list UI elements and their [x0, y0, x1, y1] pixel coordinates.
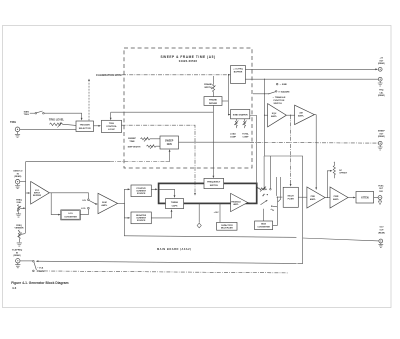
svg-text:LIN: LIN	[82, 200, 86, 202]
svg-text:FREQUENCY: FREQUENCY	[207, 182, 221, 184]
svg-text:COMP: COMP	[243, 137, 250, 139]
svg-text:TRIG: TRIG	[24, 114, 30, 116]
svg-text:WIDTH: WIDTH	[204, 87, 212, 89]
svg-text:FRAME: FRAME	[209, 99, 217, 102]
svg-text:NEGATIVE: NEGATIVE	[136, 214, 147, 217]
svg-text:SWEEP & FRAME TIME (A5): SWEEP & FRAME TIME (A5)	[160, 55, 215, 59]
svg-text:SWP WIDTH: SWP WIDTH	[128, 147, 141, 149]
svg-text:TIMING: TIMING	[171, 202, 179, 204]
svg-text:FUNC: FUNC	[378, 185, 384, 187]
svg-text:(REAR): (REAR)	[378, 231, 385, 234]
svg-text:CALIBRATION WFM: CALIBRATION WFM	[96, 73, 122, 77]
svg-text:MAIN BOARD (A3A2): MAIN BOARD (A3A2)	[157, 247, 191, 251]
svg-text:SUM: SUM	[102, 202, 107, 204]
svg-text:⊓ GATE: ⊓ GATE	[37, 270, 45, 273]
svg-text:∼ TRIANGLE: ∼ TRIANGLE	[273, 96, 287, 99]
svg-text:TOTAL: TOTAL	[242, 132, 249, 135]
svg-text:FREQ: FREQ	[16, 199, 22, 201]
svg-text:GEN/VCO: GEN/VCO	[13, 171, 23, 173]
svg-text:VERNIER: VERNIER	[15, 228, 24, 230]
svg-text:GEN: GEN	[167, 144, 172, 146]
svg-text:COMP: COMP	[230, 137, 237, 139]
svg-text:VCA/FREQ: VCA/FREQ	[12, 249, 23, 252]
svg-text:LOGIC: LOGIC	[108, 129, 115, 131]
svg-text:04926-66506: 04926-66506	[179, 59, 198, 63]
svg-text:SWITCH: SWITCH	[210, 185, 219, 187]
svg-text:PLIER: PLIER	[288, 199, 295, 201]
svg-text:+10V: +10V	[214, 212, 220, 214]
svg-text:PRE: PRE	[311, 196, 316, 198]
svg-text:LOG: LOG	[68, 213, 73, 215]
svg-text:LOAD: LOAD	[230, 132, 236, 135]
svg-text:(REAR): (REAR)	[378, 94, 385, 97]
svg-text:DRIVER: DRIVER	[209, 103, 218, 105]
svg-text:MULTIPLIER: MULTIPLIER	[221, 228, 233, 230]
svg-text:TRIG LEVEL: TRIG LEVEL	[49, 117, 65, 121]
svg-text:FREQ: FREQ	[16, 225, 22, 227]
svg-text:BIAS: BIAS	[261, 223, 266, 226]
svg-text:AMPL: AMPL	[233, 203, 239, 206]
svg-text:∼ SINE: ∼ SINE	[280, 84, 288, 86]
svg-text:TIME: TIME	[129, 141, 135, 143]
svg-text:PWR: PWR	[334, 196, 339, 198]
svg-text:BUFFER: BUFFER	[234, 71, 243, 73]
svg-text:OFFSET: OFFSET	[339, 173, 348, 175]
svg-text:∼ VCA: ∼ VCA	[37, 266, 44, 269]
svg-text:AMPL: AMPL	[310, 198, 317, 201]
svg-text:DIAL: DIAL	[17, 201, 22, 204]
svg-text:SWEEP: SWEEP	[378, 131, 386, 133]
svg-text:50Ω: 50Ω	[379, 191, 383, 193]
svg-text:AMPL: AMPL	[298, 115, 305, 118]
svg-text:SQU: SQU	[272, 113, 277, 115]
svg-text:SINE SHAPER: SINE SHAPER	[233, 113, 248, 116]
svg-text:4-3: 4-3	[12, 286, 17, 290]
svg-text:CONVERTER: CONVERTER	[64, 216, 77, 218]
svg-text:Figure 4-1. Generator Block D: Figure 4-1. Generator Block Diagram	[11, 281, 68, 285]
svg-text:GCV: GCV	[379, 227, 384, 229]
svg-text:SOURCE: SOURCE	[137, 193, 146, 195]
svg-text:CAPS: CAPS	[172, 204, 178, 207]
svg-text:(REAR): (REAR)	[14, 175, 21, 178]
svg-text:SELECTOR: SELECTOR	[79, 128, 91, 130]
svg-text:+1 & FRQ: +1 & FRQ	[233, 69, 243, 71]
svg-text:SOURCE: SOURCE	[137, 220, 146, 222]
svg-text:BUFFER: BUFFER	[33, 195, 42, 197]
svg-text:MULTI: MULTI	[288, 196, 295, 198]
svg-text:MAN: MAN	[24, 110, 29, 113]
svg-text:TRIG: TRIG	[10, 120, 16, 124]
svg-text:SWITCH: SWITCH	[274, 103, 283, 105]
svg-text:FRAME: FRAME	[204, 83, 212, 86]
svg-text:AMPL: AMPL	[101, 204, 108, 207]
svg-text:(REAR): (REAR)	[378, 62, 385, 65]
svg-text:ATTEN: ATTEN	[361, 196, 369, 199]
svg-text:CONVERTER: CONVERTER	[257, 227, 270, 229]
svg-text:(REAR): (REAR)	[378, 135, 385, 138]
svg-text:AMPL: AMPL	[271, 115, 278, 118]
svg-text:AMPL: AMPL	[333, 198, 340, 201]
svg-text:TRIG: TRIG	[109, 123, 115, 125]
svg-text:FRQ: FRQ	[379, 90, 384, 92]
svg-text:AM: AM	[299, 112, 303, 115]
svg-text:FUNCTION: FUNCTION	[274, 100, 285, 102]
svg-text:SWEEP: SWEEP	[165, 141, 174, 143]
svg-text:CONTROL: CONTROL	[106, 126, 117, 128]
svg-text:LOG: LOG	[81, 208, 86, 210]
svg-text:TRIGGER: TRIGGER	[80, 125, 90, 127]
svg-text:SWEEP: SWEEP	[128, 138, 136, 140]
svg-text:CAPACITOR: CAPACITOR	[221, 224, 233, 227]
svg-text:(REAR): (REAR)	[14, 254, 21, 257]
svg-text:TRIANGLE: TRIANGLE	[231, 200, 241, 203]
svg-text:⊓ SQUARE: ⊓ SQUARE	[278, 90, 290, 93]
